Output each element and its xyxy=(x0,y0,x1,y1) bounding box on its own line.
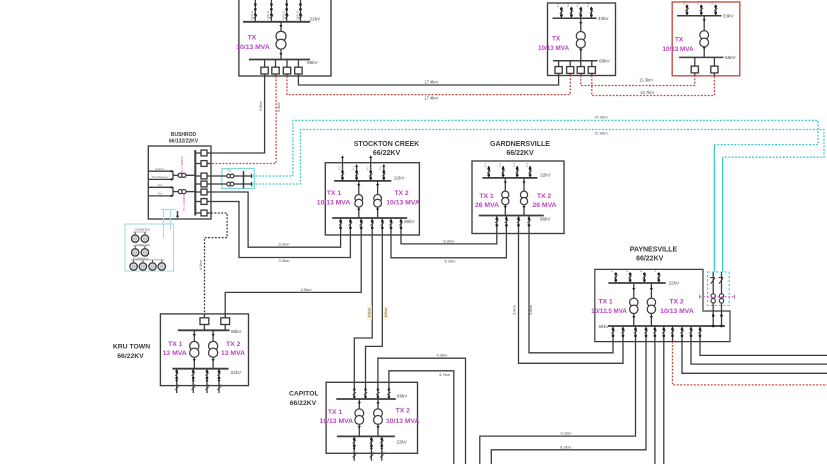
svg-text:TX 1: TX 1 xyxy=(479,193,494,200)
svg-text:3.1km: 3.1km xyxy=(279,242,291,247)
svg-text:27.0km: 27.0km xyxy=(594,115,608,120)
svg-text:TX 1: TX 1 xyxy=(328,409,343,416)
svg-text:F-1: F-1 xyxy=(654,268,658,272)
svg-text:TX 2 40MVA: TX 2 40MVA xyxy=(180,155,184,173)
svg-text:5.9km: 5.9km xyxy=(513,305,517,314)
svg-text:66kV: 66kV xyxy=(397,393,408,398)
svg-text:10/13 MVA: 10/13 MVA xyxy=(317,199,351,206)
svg-text:10/13 MVA: 10/13 MVA xyxy=(662,46,693,53)
svg-text:BUSHROD: BUSHROD xyxy=(171,132,197,138)
svg-text:11.3km: 11.3km xyxy=(639,78,653,83)
svg-text:66kV: 66kV xyxy=(307,60,319,65)
svg-text:66kV: 66kV xyxy=(404,219,415,224)
svg-text:F-1: F-1 xyxy=(512,162,516,166)
svg-text:F-1: F-1 xyxy=(625,268,629,272)
svg-text:F-3: F-3 xyxy=(696,0,700,4)
svg-text:26 MVA: 26 MVA xyxy=(475,202,499,209)
svg-text:13 MVA: 13 MVA xyxy=(221,350,245,357)
svg-text:PAYNESVILLE: PAYNESVILLE xyxy=(630,246,678,253)
svg-text:22kV: 22kV xyxy=(540,172,551,177)
svg-text:TX5: TX5 xyxy=(227,169,232,172)
svg-text:Mt Coffee/Gen: Mt Coffee/Gen xyxy=(152,176,168,179)
svg-text:F-1: F-1 xyxy=(351,165,355,169)
svg-text:TX 1: TX 1 xyxy=(598,298,613,305)
svg-text:5.9km: 5.9km xyxy=(259,101,263,111)
svg-text:6.2km: 6.2km xyxy=(444,238,456,243)
svg-text:66/132/22KV: 66/132/22KV xyxy=(169,139,199,145)
svg-text:10/13 MVA: 10/13 MVA xyxy=(538,45,569,52)
svg-text:10/13 MVA: 10/13 MVA xyxy=(660,308,694,315)
svg-text:TX: TX xyxy=(675,37,684,44)
svg-text:F-2: F-2 xyxy=(566,3,570,7)
svg-text:TX 1: TX 1 xyxy=(168,341,183,348)
svg-text:66kV: 66kV xyxy=(725,55,737,60)
svg-text:TX: TX xyxy=(552,36,561,43)
svg-text:FDR 21: FDR 21 xyxy=(266,10,270,19)
svg-text:10/13 MVA: 10/13 MVA xyxy=(386,418,420,425)
svg-text:FDR 22: FDR 22 xyxy=(282,10,286,19)
svg-text:22kV: 22kV xyxy=(231,370,242,375)
svg-text:F-1: F-1 xyxy=(639,268,643,272)
svg-text:66/22KV: 66/22KV xyxy=(506,150,534,157)
svg-text:26 MVA: 26 MVA xyxy=(532,202,556,209)
svg-text:22kV: 22kV xyxy=(394,175,405,180)
svg-text:F-1: F-1 xyxy=(484,162,488,166)
svg-text:TX 1: TX 1 xyxy=(327,190,342,197)
svg-text:9.1km: 9.1km xyxy=(561,430,573,435)
svg-text:5.8km: 5.8km xyxy=(529,305,533,314)
svg-text:6.2km: 6.2km xyxy=(445,258,457,263)
svg-text:22kV: 22kV xyxy=(310,17,322,22)
svg-text:33kV: 33kV xyxy=(598,16,610,21)
svg-text:F-3: F-3 xyxy=(711,0,715,4)
svg-text:F-2: F-2 xyxy=(586,3,590,7)
svg-text:TX 2: TX 2 xyxy=(226,341,241,348)
svg-text:TX6: TX6 xyxy=(227,185,232,188)
svg-text:10/12.5 MVA: 10/12.5 MVA xyxy=(591,308,627,315)
svg-text:GARDNERSVILLE: GARDNERSVILLE xyxy=(490,141,550,148)
svg-text:6.0km: 6.0km xyxy=(199,260,203,270)
svg-text:TX: TX xyxy=(248,35,257,42)
svg-text:Gen: Gen xyxy=(158,184,163,187)
svg-text:F-1: F-1 xyxy=(337,165,341,169)
svg-text:66kV: 66kV xyxy=(231,329,242,334)
svg-text:4.6km: 4.6km xyxy=(384,308,388,317)
svg-text:F-2: F-2 xyxy=(556,3,560,7)
svg-text:22kV: 22kV xyxy=(669,281,680,286)
svg-text:FDR 20: FDR 20 xyxy=(250,10,254,19)
svg-text:4.5km: 4.5km xyxy=(301,287,313,292)
svg-text:66/22KV: 66/22KV xyxy=(373,150,401,157)
svg-text:27.0km: 27.0km xyxy=(594,131,608,136)
svg-text:KRU TOWN: KRU TOWN xyxy=(113,343,150,350)
svg-text:F-1: F-1 xyxy=(379,165,383,169)
svg-text:66kV: 66kV xyxy=(599,59,611,64)
svg-text:3.3km: 3.3km xyxy=(279,258,291,263)
svg-text:13 MVA: 13 MVA xyxy=(163,350,187,357)
svg-text:4.5km: 4.5km xyxy=(368,308,372,317)
svg-text:10/13 MVA: 10/13 MVA xyxy=(320,418,354,425)
svg-text:TX 2: TX 2 xyxy=(396,408,411,415)
svg-text:5.9km: 5.9km xyxy=(277,102,281,112)
svg-text:33kV: 33kV xyxy=(723,13,735,18)
svg-text:CAPITOL: CAPITOL xyxy=(289,391,319,398)
svg-text:TX 1 40MVA: TX 1 40MVA xyxy=(182,193,186,211)
svg-text:4.7km: 4.7km xyxy=(439,372,451,377)
svg-text:FDR 23: FDR 23 xyxy=(295,10,299,19)
svg-text:TX 2: TX 2 xyxy=(537,193,552,200)
svg-text:10/13 MVA: 10/13 MVA xyxy=(236,44,270,51)
svg-text:Grid/Gen: Grid/Gen xyxy=(155,168,165,171)
svg-text:4.3km: 4.3km xyxy=(437,353,449,358)
svg-text:66/22KV: 66/22KV xyxy=(636,256,664,263)
svg-text:Gen: Gen xyxy=(158,193,163,196)
svg-text:10/13 MVA: 10/13 MVA xyxy=(386,199,420,206)
svg-text:17.4km: 17.4km xyxy=(424,79,438,84)
svg-text:66kV: 66kV xyxy=(599,324,610,329)
svg-text:2X10MW BUS: 2X10MW BUS xyxy=(134,229,150,232)
svg-text:TX 2: TX 2 xyxy=(669,298,684,305)
svg-text:F-1: F-1 xyxy=(498,162,502,166)
svg-text:TX 2: TX 2 xyxy=(394,190,409,197)
svg-text:10.7km: 10.7km xyxy=(640,90,654,95)
svg-text:F-1: F-1 xyxy=(366,165,370,169)
svg-text:F-2: F-2 xyxy=(576,3,580,7)
svg-text:17.4km: 17.4km xyxy=(424,95,438,100)
svg-text:22kV: 22kV xyxy=(396,440,407,445)
svg-text:STOCKTON CREEK: STOCKTON CREEK xyxy=(354,141,419,148)
svg-text:9.2km: 9.2km xyxy=(560,444,572,449)
svg-text:66kV: 66kV xyxy=(540,216,551,221)
svg-text:F-1: F-1 xyxy=(611,268,615,272)
svg-text:66/22KV: 66/22KV xyxy=(290,400,317,407)
svg-text:F-3: F-3 xyxy=(682,0,686,4)
svg-text:F-1: F-1 xyxy=(525,162,529,166)
svg-text:66/22KV: 66/22KV xyxy=(117,353,144,360)
